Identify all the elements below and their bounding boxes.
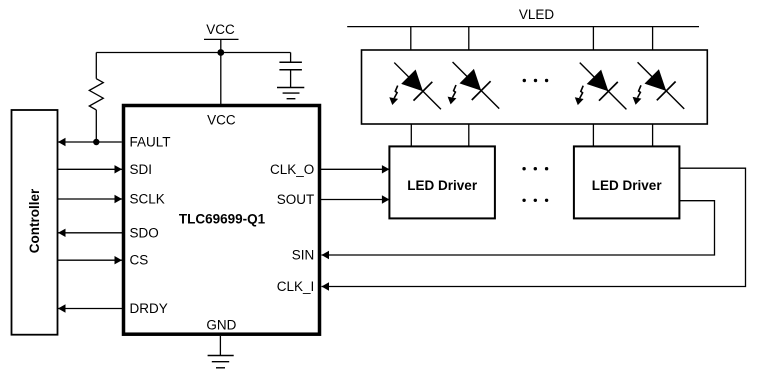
wire FAULT bbox=[58, 141, 122, 143]
svg-text:DRDY: DRDY bbox=[130, 301, 168, 316]
ellipsis dots (driver chain row 2) bbox=[522, 199, 548, 202]
wire VLED stub 2 bbox=[468, 27, 470, 50]
wire VLED stub 4 bbox=[652, 27, 654, 50]
svg-text:GND: GND bbox=[206, 318, 236, 333]
svg-text:SOUT: SOUT bbox=[277, 192, 315, 207]
svg-text:LED Driver: LED Driver bbox=[407, 178, 478, 193]
resistor R1 pull-up bbox=[95, 53, 97, 79]
svg-text:VCC: VCC bbox=[207, 112, 236, 127]
node FAULT junction dot bbox=[93, 139, 99, 145]
svg-text:TLC69699-Q1: TLC69699-Q1 bbox=[179, 212, 266, 227]
ellipsis dots (driver chain row 1) bbox=[522, 167, 548, 170]
svg-text:Controller: Controller bbox=[27, 188, 42, 253]
wire driver 2 clock return to CLK_I bbox=[322, 168, 746, 286]
svg-text:LED Driver: LED Driver bbox=[592, 178, 663, 193]
wire driver 2 data return to SIN bbox=[322, 201, 715, 255]
LED string box bbox=[362, 50, 708, 124]
svg-text:SIN: SIN bbox=[292, 248, 315, 263]
wire LED box to driver 2 stub a bbox=[592, 124, 594, 146]
wire LED box to driver 1 stub b bbox=[468, 124, 470, 146]
svg-text:SCLK: SCLK bbox=[130, 192, 165, 207]
wire SCLK bbox=[58, 198, 123, 200]
LED D4 bbox=[628, 53, 693, 118]
svg-text:CLK_I: CLK_I bbox=[277, 279, 315, 294]
wire CS bbox=[58, 259, 123, 261]
svg-text:SDI: SDI bbox=[130, 162, 153, 177]
ground (IC GND) bbox=[219, 336, 221, 356]
wire CLK_O to driver 1 bbox=[321, 168, 389, 170]
LED D3 bbox=[570, 53, 635, 118]
LED D2 bbox=[443, 53, 508, 118]
svg-text:CLK_O: CLK_O bbox=[270, 162, 314, 177]
wire SOUT to driver 1 bbox=[321, 199, 389, 201]
wire DRDY bbox=[58, 308, 122, 310]
ground (capacitor) bbox=[277, 87, 304, 89]
wire VLED rail bbox=[347, 26, 699, 28]
wire LED box to driver 2 stub b bbox=[652, 124, 654, 146]
LED Driver 1 box bbox=[389, 146, 495, 218]
svg-text:VLED: VLED bbox=[519, 7, 555, 22]
ellipsis dots (LED string) bbox=[523, 79, 549, 82]
wire SDI bbox=[58, 168, 123, 170]
svg-text:VCC: VCC bbox=[206, 22, 235, 37]
LED D1 bbox=[385, 53, 450, 118]
LED Driver 2 box bbox=[574, 146, 680, 218]
svg-text:CS: CS bbox=[130, 253, 149, 268]
wire VLED stub 3 bbox=[592, 27, 594, 50]
node VCC junction dot bbox=[217, 49, 224, 56]
wire LED box to driver 1 stub a bbox=[410, 124, 412, 146]
wire VCC rail horizontal bbox=[96, 52, 290, 54]
wire VLED stub 1 bbox=[410, 27, 412, 50]
svg-text:SDO: SDO bbox=[130, 225, 159, 240]
wire SDO bbox=[58, 232, 122, 234]
capacitor C1 bbox=[290, 53, 292, 63]
svg-text:FAULT: FAULT bbox=[130, 135, 171, 150]
IC U1 TLC69699-Q1 box bbox=[124, 106, 320, 335]
controller box bbox=[12, 110, 58, 335]
